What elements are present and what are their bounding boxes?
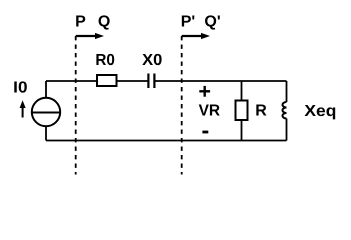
svg-text:Q': Q' xyxy=(204,13,220,30)
inductor Xeq bottom wire xyxy=(286,119,288,141)
I0 direction arrow xyxy=(20,100,26,117)
current source I0 circle xyxy=(32,98,60,126)
inductor Xeq top wire xyxy=(286,81,288,102)
wire source bottom stub xyxy=(45,126,47,141)
svg-text:R0: R0 xyxy=(95,52,115,69)
resistor R branch bottom wire xyxy=(241,120,243,141)
label plus xyxy=(199,86,210,97)
wire source top stub xyxy=(45,81,47,99)
svg-text:P: P xyxy=(75,13,86,30)
svg-text:I0: I0 xyxy=(13,79,27,96)
wire between R0 and X0 xyxy=(117,80,149,82)
port P' dashed line xyxy=(181,36,183,175)
resistor R branch top wire xyxy=(241,81,243,101)
svg-text:R: R xyxy=(255,103,267,120)
port P' arrow xyxy=(182,33,210,39)
wire top right segment xyxy=(155,80,287,82)
capacitor X0 plate left xyxy=(147,74,149,89)
resistor R xyxy=(236,101,248,121)
svg-text:VR: VR xyxy=(199,103,221,120)
inductor Xeq coil xyxy=(283,102,287,119)
current source I0 chord xyxy=(32,112,60,114)
wire bottom xyxy=(46,140,287,142)
port P dashed line xyxy=(75,36,77,175)
svg-text:P': P' xyxy=(181,13,195,30)
capacitor X0 plate right xyxy=(153,74,155,89)
wire top left segment xyxy=(46,80,97,82)
resistor R0 xyxy=(97,75,117,86)
svg-text:Q: Q xyxy=(98,13,110,30)
label minus xyxy=(202,131,208,134)
svg-text:Xeq: Xeq xyxy=(304,103,336,120)
port P arrow xyxy=(76,33,104,39)
svg-text:X0: X0 xyxy=(142,52,162,69)
